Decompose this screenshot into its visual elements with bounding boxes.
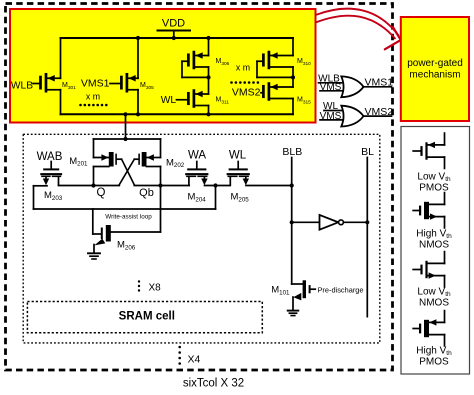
svg-text:WLB: WLB xyxy=(11,81,33,92)
svg-text:Q: Q xyxy=(97,187,106,199)
svg-text:VMS1: VMS1 xyxy=(81,78,110,90)
svg-text:WA: WA xyxy=(188,150,206,162)
svg-text:WL: WL xyxy=(229,150,247,162)
svg-text:VMS: VMS xyxy=(320,82,342,93)
svg-text:NMOS: NMOS xyxy=(419,240,449,251)
svg-text:NMOS: NMOS xyxy=(419,298,449,309)
svg-text:x m: x m xyxy=(86,92,100,102)
svg-text:X8: X8 xyxy=(149,283,162,294)
svg-text:X4: X4 xyxy=(188,354,201,366)
svg-text:x m: x m xyxy=(236,62,250,72)
svg-text:Qb: Qb xyxy=(139,187,154,199)
svg-text:BLB: BLB xyxy=(282,146,302,158)
svg-text:PMOS: PMOS xyxy=(419,357,449,368)
svg-text:Write-assist loop: Write-assist loop xyxy=(105,213,152,220)
svg-text:VMS2: VMS2 xyxy=(365,106,394,118)
svg-text:Pre-discharge: Pre-discharge xyxy=(318,285,364,294)
svg-text:power-gated: power-gated xyxy=(407,58,463,69)
svg-text:mechanism: mechanism xyxy=(409,70,460,81)
svg-text:WL: WL xyxy=(161,95,177,106)
svg-text:BL: BL xyxy=(361,146,374,158)
svg-text:WAB: WAB xyxy=(37,151,63,163)
svg-text:sixTcol X 32: sixTcol X 32 xyxy=(183,378,244,390)
svg-text:VMS: VMS xyxy=(320,111,342,122)
svg-text:VMS1: VMS1 xyxy=(365,76,394,88)
svg-text:VDD: VDD xyxy=(162,18,185,30)
svg-text:SRAM cell: SRAM cell xyxy=(119,311,175,323)
svg-text:VMS2: VMS2 xyxy=(232,87,261,99)
